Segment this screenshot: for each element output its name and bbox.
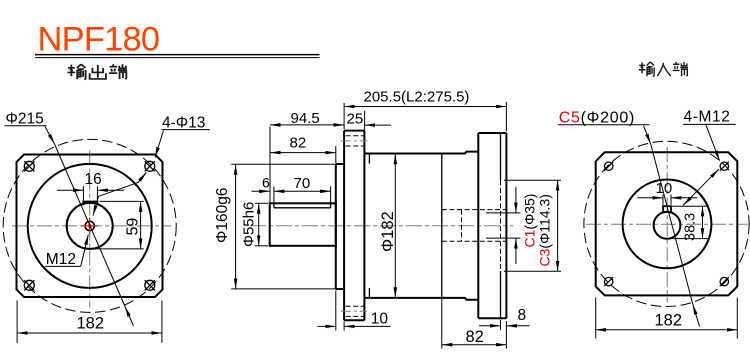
bolt hole top-left [24, 161, 34, 171]
centerline vertical [666, 147, 668, 303]
bore keyway slot [663, 206, 671, 211]
svg-text:Φ182: Φ182 [379, 211, 397, 252]
svg-text:6: 6 [262, 175, 270, 191]
dim Phi160g6 [231, 163, 336, 165]
bolt hole bottom-left [24, 280, 34, 290]
output flange plate [343, 131, 345, 321]
svg-text:Φ55h6: Φ55h6 [241, 202, 258, 247]
svg-text:4-Φ13: 4-Φ13 [162, 115, 205, 132]
svg-text:Φ215: Φ215 [6, 111, 44, 128]
dim 82 top [335, 146, 337, 164]
svg-text:C1(Φ35): C1(Φ35) [522, 194, 538, 248]
title underline double [35, 54, 320, 56]
body outline top [364, 152, 478, 154]
square flange outline [596, 152, 738, 295]
svg-text:82: 82 [290, 134, 307, 151]
dim 182 bottom [595, 298, 597, 339]
svg-text:25: 25 [347, 111, 364, 128]
leader 4-M12 [706, 125, 720, 161]
shaft keyway slot [83, 202, 97, 206]
dim 10 bottom step [335, 291, 337, 331]
pilot recess line [500, 134, 502, 181]
M12 tapped hole [85, 221, 94, 230]
tapped hole M12 bottom-left [604, 277, 613, 286]
tapped hole M12 top-right [720, 162, 729, 171]
label output-end (Chinese 输出端) [68, 64, 128, 79]
svg-text:94.5: 94.5 [291, 110, 320, 127]
output shaft body [270, 203, 336, 246]
tapped hole M12 top-left [604, 162, 613, 171]
tapped hole M12 bottom-right [720, 277, 729, 286]
dim 82 bottom [441, 298, 443, 349]
dim 25 flange thickness [364, 111, 366, 130]
dim 6 keyway offset [252, 190, 270, 192]
centerline vertical [89, 151, 91, 308]
hidden flange bolt hole bottom [346, 305, 364, 307]
dim 16 keyway width [82, 186, 84, 200]
svg-text:C3(Φ114.3): C3(Φ114.3) [537, 194, 553, 266]
leader center to top-right bolt hole [93, 196, 99, 215]
body outline bottom [364, 298, 478, 300]
body seam line [441, 154, 443, 298]
pilot circle Phi160 [28, 164, 152, 288]
leader C5 with diameter line [644, 126, 651, 144]
svg-text:82: 82 [466, 328, 484, 346]
svg-text:C5(Φ200): C5(Φ200) [559, 109, 635, 126]
leader center to top-right hole [683, 169, 719, 205]
svg-text:Φ160g6: Φ160g6 [214, 188, 231, 243]
svg-text:182: 182 [655, 311, 683, 329]
hidden flange bolt hole top [346, 135, 364, 137]
centerline horizontal [586, 223, 748, 225]
bolt circle dashed Phi200 [584, 141, 749, 306]
svg-text:70: 70 [294, 175, 311, 192]
main centerline [250, 225, 513, 227]
red center mark [82, 218, 99, 235]
dim 59 [100, 200, 144, 202]
dim 182 bottom [16, 301, 18, 343]
input shaft bore Phi35 [654, 212, 681, 239]
shaft keyway line [274, 207, 331, 209]
dim C3(Phi114.3) [504, 179, 561, 181]
input flange plate [477, 133, 479, 318]
output shaft circle Phi55 [67, 203, 113, 249]
svg-text:38.3: 38.3 [683, 213, 699, 241]
centerline horizontal [12, 225, 171, 227]
dim 70 keyway length [273, 187, 275, 204]
leader M12 [81, 235, 89, 267]
input pilot circle [623, 180, 712, 269]
svg-text:182: 182 [77, 315, 105, 333]
svg-text:16: 16 [85, 171, 102, 188]
square flange outline [17, 155, 163, 298]
svg-text:10: 10 [371, 310, 389, 327]
leader 4-Phi13 [155, 131, 164, 158]
svg-text:205.5(L2:275.5): 205.5(L2:275.5) [364, 89, 470, 106]
bolt circle dashed Phi215 [3, 139, 176, 312]
spigot face Phi160 [335, 164, 337, 289]
svg-text:10: 10 [656, 180, 673, 197]
dim Phi182 [394, 154, 396, 298]
svg-text:59: 59 [125, 218, 142, 236]
svg-text:4-M12: 4-M12 [684, 109, 731, 126]
leader Phi215 with diameter line [45, 127, 55, 145]
label input-end (Chinese 输入端) [639, 62, 688, 77]
svg-text:NPF180: NPF180 [38, 21, 160, 59]
dim 38.3 [672, 205, 709, 207]
svg-text:8: 8 [518, 307, 527, 324]
dim 94.5 [269, 127, 271, 203]
hidden bore lines [442, 209, 506, 211]
bolt hole bottom-right [145, 280, 155, 290]
dim C1(Phi35) [486, 212, 521, 214]
body front interface edges [368, 154, 370, 298]
dim 10 keyway width [662, 195, 664, 205]
dim Phi55h6 [255, 202, 268, 204]
svg-text:M12: M12 [46, 251, 76, 268]
dim 8 pilot depth [500, 320, 502, 330]
bolt hole top-right [145, 161, 155, 171]
dim 205.5 overall [343, 103, 345, 129]
